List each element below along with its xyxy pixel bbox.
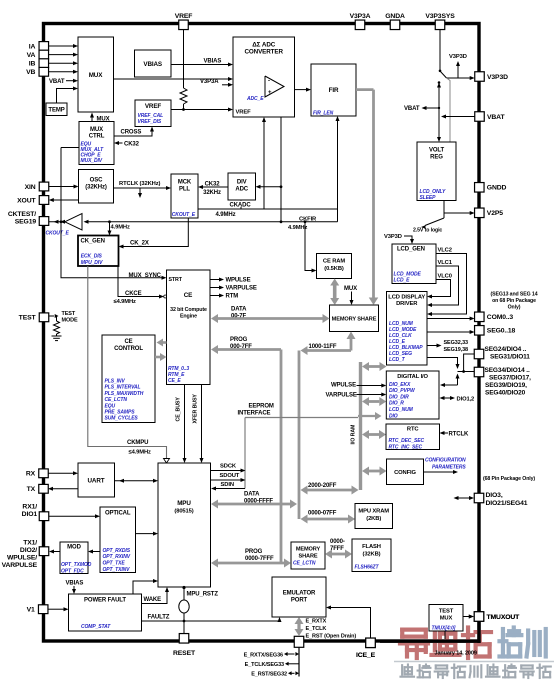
svg-text:FIR_LEN: FIR_LEN [313,111,334,117]
svg-text:MUX: MUX [440,616,453,622]
svg-text:SHARE: SHARE [298,554,317,560]
svg-text:CKOUT_E: CKOUT_E [172,212,196,218]
svg-text:UART: UART [88,478,105,485]
svg-text:PROG: PROG [230,337,248,343]
svg-text:MEMORY: MEMORY [296,547,321,553]
svg-text:4.9MHz: 4.9MHz [111,225,130,231]
svg-text:EQU: EQU [105,403,116,409]
svg-text:CK32: CK32 [205,181,221,187]
svg-text:-: - [268,79,270,85]
svg-text:V1: V1 [27,607,35,614]
svg-text:TMUX[4:0]: TMUX[4:0] [432,626,456,632]
svg-text:RTM: RTM [226,294,239,300]
svg-text:DIV: DIV [237,179,247,185]
svg-text:CK_GEN: CK_GEN [81,238,105,244]
svg-text:VBAT: VBAT [404,106,420,112]
svg-text:CONTROL: CONTROL [114,346,143,352]
svg-text:OPT_TXMOD: OPT_TXMOD [61,562,92,568]
svg-text:VREF: VREF [236,110,252,116]
svg-text:REG: REG [430,155,443,161]
svg-text:VBAT: VBAT [487,114,505,121]
svg-text:CE_BUSY: CE_BUSY [176,397,182,422]
svg-text:TX: TX [27,486,36,493]
svg-text:(2KB): (2KB) [366,516,381,522]
svg-text:SEG37/DIO17,: SEG37/DIO17, [489,375,531,382]
svg-text:INTERFACE: INTERFACE [238,411,271,417]
svg-text:PLS_MAXWIDTH: PLS_MAXWIDTH [105,391,144,397]
svg-text:I/O RAM: I/O RAM [351,424,357,445]
svg-text:CTRL: CTRL [89,133,105,139]
svg-text:GNDA: GNDA [385,13,405,20]
svg-text:DATA: DATA [244,492,260,498]
svg-text:MUX: MUX [90,127,103,133]
svg-text:0000-07FF: 0000-07FF [308,511,337,517]
svg-text:DRIVER: DRIVER [396,301,418,307]
svg-text:SDCK: SDCK [220,464,237,470]
svg-text:SEG40/DIO20: SEG40/DIO20 [485,390,526,397]
svg-text:CE_LCTN: CE_LCTN [105,397,128,403]
svg-text:CKOUT_E: CKOUT_E [46,231,70,237]
svg-text:RTC_INC_SEC: RTC_INC_SEC [389,444,423,450]
svg-text:SEG39/DIO19,: SEG39/DIO19, [485,382,527,389]
svg-text:MPU XRAM: MPU XRAM [358,509,389,515]
svg-text:(0.5KB): (0.5KB) [324,266,344,272]
svg-text:CE_E: CE_E [168,378,181,384]
svg-text:CKCE: CKCE [125,291,142,297]
svg-text:ADC_E: ADC_E [246,96,264,102]
svg-text:SEG31/DIO11: SEG31/DIO11 [490,354,530,361]
svg-text:LCD_GEN: LCD_GEN [397,246,425,252]
svg-text:CKMPU: CKMPU [127,440,148,446]
svg-text:VLC0: VLC0 [438,274,452,280]
svg-text:WPULSE/: WPULSE/ [7,555,37,562]
svg-text:DIO1,2: DIO1,2 [457,397,475,403]
svg-text:SEG32,33: SEG32,33 [444,340,469,346]
svg-text:RTCLK: RTCLK [449,432,470,438]
svg-text:VREF: VREF [145,103,162,110]
svg-text:E_TCLK: E_TCLK [306,626,327,632]
svg-text:CE_LCTN: CE_LCTN [293,561,316,567]
svg-text:MUX_SYNC: MUX_SYNC [129,273,162,279]
svg-text:PORT: PORT [291,598,308,604]
svg-text:CK_2X: CK_2X [130,240,149,246]
svg-text:CKTEST/: CKTEST/ [8,211,36,218]
svg-text:LCD_T: LCD_T [389,357,406,363]
svg-text:PLS_INTERVAL: PLS_INTERVAL [105,385,141,391]
svg-text:2000-20FF: 2000-20FF [308,483,337,489]
svg-text:CONFIG: CONFIG [394,470,416,476]
svg-text:0000-: 0000- [330,539,345,545]
svg-text:DIO21/SEG41: DIO21/SEG41 [486,500,528,507]
svg-text:ICE_E: ICE_E [356,652,376,659]
svg-text:MCK: MCK [178,179,192,185]
svg-text:VREF_DIS: VREF_DIS [138,119,162,125]
svg-text:STRT: STRT [169,277,183,283]
svg-text:TEST: TEST [19,315,37,322]
svg-text:WPULSE: WPULSE [331,383,356,389]
svg-text:MOD: MOD [67,545,81,551]
svg-text:CE RAM: CE RAM [323,259,345,265]
svg-text:DATA: DATA [231,307,247,313]
svg-text:LCD DISPLAY: LCD DISPLAY [388,295,425,301]
svg-text:PARAMETERS: PARAMETERS [432,465,466,471]
svg-text:MPU_RSTZ: MPU_RSTZ [187,592,219,598]
svg-text:OPT_FDC: OPT_FDC [61,568,84,574]
svg-text:VBIAS: VBIAS [66,581,84,587]
svg-text:VOLT: VOLT [429,148,445,154]
svg-text:PLS_INV: PLS_INV [105,379,126,385]
svg-text:FIR: FIR [329,87,339,94]
svg-text:LCD_NUM: LCD_NUM [389,407,414,413]
svg-text:DIO2/: DIO2/ [20,547,37,554]
svg-text:DIO_PVPW: DIO_PVPW [389,388,416,394]
svg-text:XOUT: XOUT [17,197,36,204]
svg-text:TEMP: TEMP [48,108,64,114]
svg-text:DIO_DIR: DIO_DIR [389,394,409,400]
svg-text:(80515): (80515) [174,509,193,515]
svg-text:ΔΣ ADC: ΔΣ ADC [252,42,276,49]
svg-text:32 bit Compute: 32 bit Compute [170,307,207,313]
svg-text:VBAT: VBAT [49,79,65,85]
svg-text:EEPROM: EEPROM [249,404,274,410]
svg-text:V3P3SYS: V3P3SYS [425,13,455,20]
svg-text:SDOUT: SDOUT [220,473,240,479]
svg-text:IA: IA [29,43,36,50]
svg-text:PROG: PROG [245,549,263,555]
svg-text:DIO: DIO [389,413,398,419]
svg-text:OSC: OSC [90,178,103,184]
svg-text:SEG34/DIO14 ..: SEG34/DIO14 .. [485,367,530,374]
svg-text:RESET: RESET [173,650,196,657]
svg-text:XFER BUSY: XFER BUSY [193,394,199,424]
svg-text:VLC2: VLC2 [438,248,452,254]
svg-text:DIO3,: DIO3, [486,492,503,499]
svg-text:CONVERTER: CONVERTER [244,49,283,56]
svg-text:V3P3D: V3P3D [384,234,402,240]
svg-text:DIO_R: DIO_R [389,401,404,407]
svg-text:POWER FAULT: POWER FAULT [84,598,126,604]
svg-text:ECK_DIS: ECK_DIS [81,254,103,260]
svg-text:TEST: TEST [439,609,454,615]
svg-text:DIGITAL I/O: DIGITAL I/O [397,374,428,380]
svg-text:MPU: MPU [177,500,191,507]
svg-text:MUX: MUX [89,72,104,79]
svg-text:(SEG13 and SEG 14: (SEG13 and SEG 14 [491,292,538,298]
svg-text:SEG0..18: SEG0..18 [487,328,516,335]
svg-text:MPU_DIV: MPU_DIV [81,260,103,266]
svg-text:OPT_RXINV: OPT_RXINV [103,554,131,560]
svg-text:7FFF: 7FFF [330,546,344,552]
svg-text:V2P5: V2P5 [487,210,503,217]
svg-text:COM0..3: COM0..3 [487,314,514,321]
svg-text:FLASH: FLASH [362,544,381,550]
svg-text:CE: CE [184,292,193,299]
svg-text:LCD_E: LCD_E [394,278,411,284]
svg-text:RX1/: RX1/ [22,503,37,510]
svg-text:ADC: ADC [235,186,248,192]
svg-text:XIN: XIN [25,184,36,191]
svg-text:Engine: Engine [180,314,197,320]
svg-text:OPTICAL: OPTICAL [105,511,131,517]
svg-text:V3P3D: V3P3D [487,74,508,81]
svg-text:RTC_DEC_SEC: RTC_DEC_SEC [389,438,425,444]
svg-text:V3P3D: V3P3D [449,54,467,60]
svg-text:SEG19,38: SEG19,38 [444,347,469,353]
svg-text:SEG24/DIO4 ..: SEG24/DIO4 .. [485,346,527,353]
svg-text:CE: CE [124,339,132,345]
svg-text:V3P3A: V3P3A [350,13,371,20]
svg-text:WPULSE: WPULSE [226,278,251,284]
svg-text:TEST: TEST [62,311,76,317]
svg-text:OPT_TXINV: OPT_TXINV [103,567,131,573]
svg-text:≤4.9MHz: ≤4.9MHz [114,299,137,305]
svg-text:VBIAS: VBIAS [204,59,222,65]
svg-text:TX1/: TX1/ [23,540,37,547]
svg-text:FAULTZ: FAULTZ [148,614,170,620]
svg-text:MODE: MODE [62,318,79,324]
svg-text:GNDD: GNDD [487,185,507,192]
svg-text:VREF: VREF [175,13,193,20]
svg-text:(32KHz): (32KHz) [85,185,107,191]
svg-text:VARPULSE: VARPULSE [226,286,257,292]
svg-text:V3P3A: V3P3A [200,79,219,85]
svg-text:E_RST/SEG32: E_RST/SEG32 [251,672,287,678]
svg-text:VARPULSE: VARPULSE [2,562,38,569]
svg-text:VBIAS: VBIAS [143,61,162,68]
svg-text:FLSH66ZT: FLSH66ZT [355,565,380,571]
svg-text:CKADC: CKADC [230,202,252,208]
svg-text:SDIN: SDIN [221,482,234,488]
svg-text:PRE_SAMPS: PRE_SAMPS [105,410,136,416]
svg-text:Only): Only) [508,305,521,311]
svg-text:E_RST (Open Drain): E_RST (Open Drain) [306,634,357,640]
svg-text:TMUXOUT: TMUXOUT [487,614,521,621]
svg-text:(68 Pin Package Only): (68 Pin Package Only) [483,476,535,482]
svg-text:CROSS: CROSS [121,129,142,135]
svg-text:MUX: MUX [344,286,357,292]
svg-text:VARPULSE: VARPULSE [326,393,357,399]
svg-text:SLEEP: SLEEP [420,195,437,201]
svg-text:32KHz: 32KHz [203,190,221,196]
svg-text:E_RXTX/SEG36: E_RXTX/SEG36 [244,653,283,659]
svg-text:CK32: CK32 [124,141,140,147]
svg-text:E_TCLK/SEG33: E_TCLK/SEG33 [245,662,284,668]
svg-text:SUM_CYCLES: SUM_CYCLES [105,416,139,422]
svg-text:VA: VA [27,52,36,59]
svg-text:RTC: RTC [407,427,419,433]
svg-text:RTCLK (32KHz): RTCLK (32KHz) [119,181,161,187]
svg-text:EMULATOR: EMULATOR [283,591,316,597]
svg-text:2.5V to logic: 2.5V to logic [413,228,442,234]
svg-text:January 14, 2009: January 14, 2009 [435,651,477,657]
svg-text:on 68 Pin Package: on 68 Pin Package [492,298,536,304]
svg-text:4.9MHz: 4.9MHz [216,212,236,218]
svg-text:MEMORY SHARE: MEMORY SHARE [332,317,377,323]
svg-text:(32KB): (32KB) [363,552,381,558]
svg-text:SEG19: SEG19 [15,218,37,225]
svg-text:IB: IB [29,61,36,68]
svg-text:WAKE: WAKE [144,597,162,603]
svg-text:RX: RX [26,471,36,478]
svg-text:PLL: PLL [179,186,190,192]
svg-text:COMP_STAT: COMP_STAT [81,624,111,630]
svg-text:0000-7FFF: 0000-7FFF [245,556,274,562]
svg-text:VLC1: VLC1 [438,260,453,266]
svg-text:DIO_EKX: DIO_EKX [389,382,411,388]
svg-text:CONFIGURATION: CONFIGURATION [425,458,466,464]
svg-text:OPT_TXE: OPT_TXE [103,561,126,567]
svg-text:MUX_DIV: MUX_DIV [81,158,103,164]
svg-text:E_RXTX: E_RXTX [306,619,327,625]
svg-text:DIO1: DIO1 [22,511,38,518]
svg-text:≤4.9MHz: ≤4.9MHz [129,449,152,455]
svg-text:VB: VB [26,69,35,76]
